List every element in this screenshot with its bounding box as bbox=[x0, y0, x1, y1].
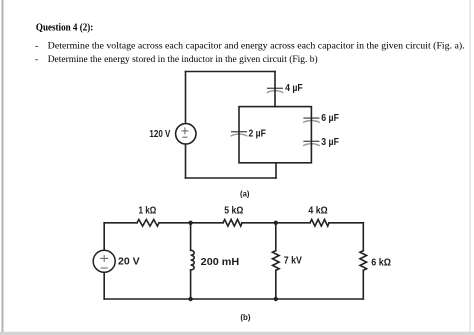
svg-text:1 kΩ: 1 kΩ bbox=[139, 206, 157, 217]
svg-text:2 µF: 2 µF bbox=[249, 129, 266, 140]
svg-text:-: - bbox=[35, 40, 38, 51]
svg-text:3 µF: 3 µF bbox=[321, 137, 339, 148]
svg-text:120 V: 120 V bbox=[149, 129, 170, 140]
svg-text:6 kΩ: 6 kΩ bbox=[371, 257, 391, 268]
svg-text:7 kV: 7 kV bbox=[284, 256, 303, 267]
svg-text:200 mH: 200 mH bbox=[201, 257, 240, 268]
svg-text:5 kΩ: 5 kΩ bbox=[224, 205, 243, 216]
svg-text:Question 4 (2):: Question 4 (2): bbox=[36, 23, 93, 34]
svg-text:(b): (b) bbox=[240, 312, 250, 322]
svg-text:-: - bbox=[35, 54, 38, 65]
svg-text:6 µF: 6 µF bbox=[321, 113, 339, 124]
svg-text:20 V: 20 V bbox=[118, 257, 140, 268]
svg-text:(a): (a) bbox=[240, 189, 250, 199]
svg-text:Determine the energy stored in: Determine the energy stored in the induc… bbox=[48, 54, 318, 65]
svg-text:4 kΩ: 4 kΩ bbox=[308, 205, 327, 216]
svg-text:4 µF: 4 µF bbox=[285, 83, 303, 94]
svg-text:Determine the voltage across e: Determine the voltage across each capaci… bbox=[48, 40, 465, 51]
